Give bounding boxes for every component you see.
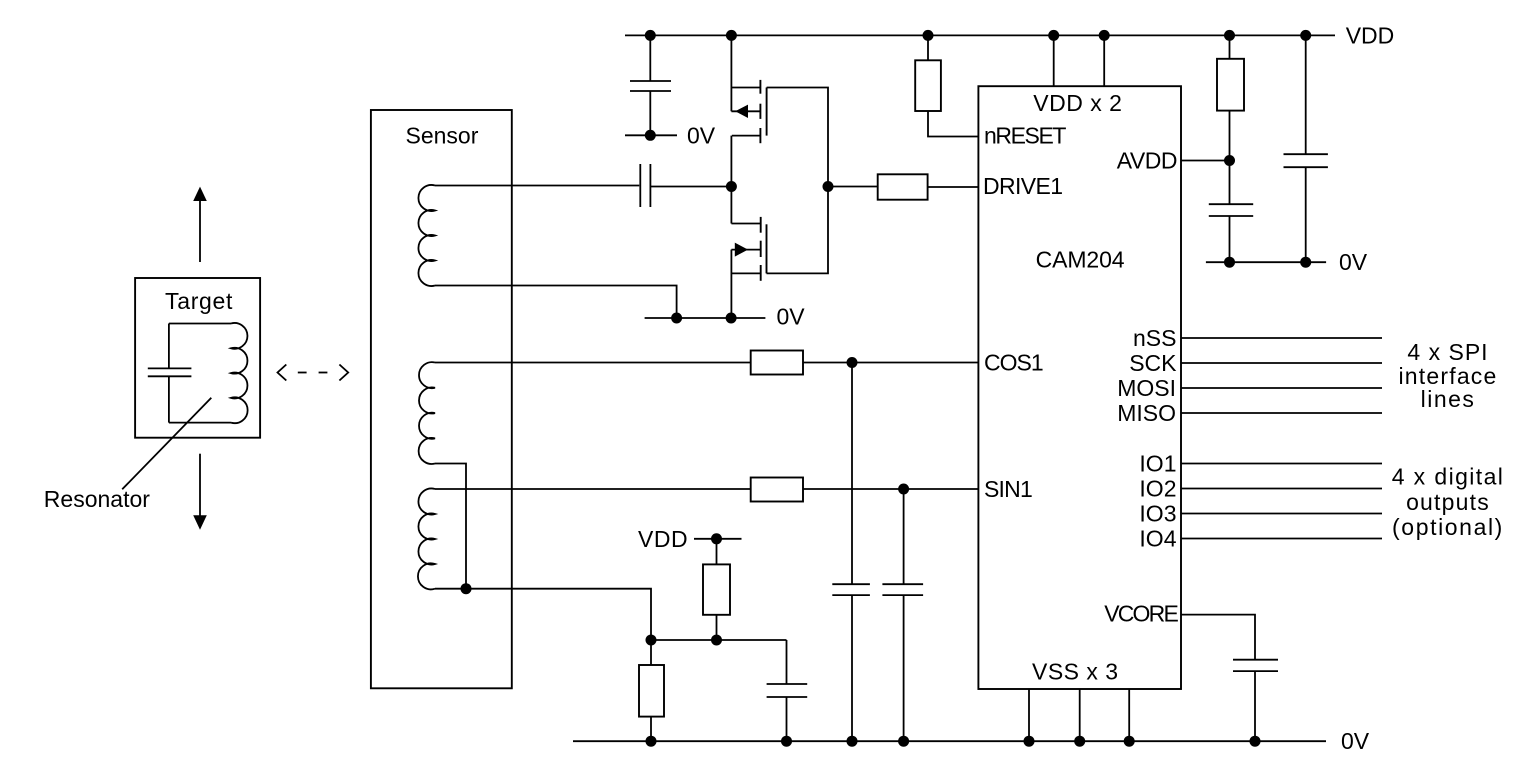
wire MISO pin	[1181, 412, 1382, 414]
svg-text:SIN1: SIN1	[984, 476, 1032, 502]
resistor R3 (COS1 series)	[435, 351, 978, 375]
wire VSS pin 2	[1079, 689, 1081, 741]
IC U1 CAM204	[978, 86, 1181, 689]
svg-text:(optional): (optional)	[1392, 514, 1504, 540]
wire gates node to R1	[828, 186, 878, 188]
svg-text:DRIVE1: DRIVE1	[983, 173, 1062, 199]
node Q1 source on VDD rail	[726, 30, 737, 41]
wire SCK pin	[1181, 362, 1382, 364]
resistor R2 (nRESET pull-up)	[915, 35, 978, 136]
wire VDD pin 2	[1103, 35, 1105, 86]
svg-text:4 x SPI: 4 x SPI	[1407, 339, 1488, 365]
svg-text:0V: 0V	[1339, 249, 1368, 275]
svg-text:VDD: VDD	[1346, 23, 1395, 49]
svg-text:VDD x 2: VDD x 2	[1033, 90, 1122, 116]
node rail C8	[1250, 736, 1261, 747]
svg-text:IO2: IO2	[1139, 476, 1176, 502]
node rail R6	[646, 736, 657, 747]
wire L1 bottom to 0V	[435, 286, 677, 319]
up arrow (target motion)	[193, 187, 207, 262]
down arrow (target motion)	[193, 454, 207, 530]
wire 0V stub below Q2	[645, 317, 766, 319]
svg-text:MISO: MISO	[1117, 400, 1176, 426]
svg-text:interface: interface	[1398, 363, 1497, 389]
node VDD pin 1	[1048, 30, 1059, 41]
svg-text:0V: 0V	[1341, 728, 1370, 754]
svg-text:COS1: COS1	[984, 349, 1043, 375]
wire VSS pin 3	[1128, 689, 1130, 741]
inductor L2 (sensor coil 2)	[419, 362, 435, 464]
label 4 x SPI interface lines	[1398, 339, 1497, 412]
node rail C5	[781, 736, 792, 747]
wire bias row	[651, 639, 787, 641]
capacitor C5 (bias)	[767, 640, 808, 741]
svg-text:0V: 0V	[777, 304, 806, 330]
svg-text:MOSI: MOSI	[1117, 375, 1176, 401]
capacitor C2 (DC block)	[640, 164, 731, 207]
resistor R4 (SIN1 series)	[435, 478, 978, 502]
capacitor C6 (AVDD)	[1209, 161, 1253, 263]
wire gate bus Q1/Q2	[767, 88, 829, 274]
wire VDD top rail	[625, 34, 1335, 36]
svg-text:outputs: outputs	[1406, 489, 1490, 515]
node R7 on VDD rail	[1224, 30, 1235, 41]
resistor R6 (bias lower)	[639, 640, 664, 741]
wire L1 top to C2	[435, 185, 639, 187]
capacitor (resonator C)	[148, 324, 192, 423]
svg-text:nRESET: nRESET	[984, 123, 1066, 149]
resistor R7 (AVDD)	[1217, 35, 1244, 160]
wire IO2 pin	[1181, 488, 1382, 490]
node C1 on VDD rail	[645, 30, 656, 41]
inductor (resonator L)	[231, 323, 248, 423]
svg-text:lines: lines	[1421, 386, 1476, 412]
transistor Q1 (P-channel MOSFET)	[731, 35, 766, 186]
wire R1 to DRIVE1 pin	[928, 186, 979, 188]
node bias left	[646, 635, 657, 646]
wire IO1 pin	[1181, 463, 1382, 465]
svg-text:VSS x 3: VSS x 3	[1032, 659, 1119, 685]
wire VCORE pin	[1181, 615, 1255, 660]
node VSS pin 3	[1124, 736, 1135, 747]
node C7 to 0V	[1300, 257, 1311, 268]
wire resonator loop bottom	[169, 422, 231, 424]
node C1 to 0V	[645, 130, 656, 141]
svg-text:IO3: IO3	[1139, 501, 1176, 527]
wire resonator loop top	[169, 323, 231, 325]
node bias center	[711, 635, 722, 646]
svg-text:4 x digital: 4 x digital	[1392, 464, 1505, 490]
wire VDD pin 1	[1053, 35, 1055, 86]
node L2/L3 junction	[461, 583, 472, 594]
wire IO3 pin	[1181, 513, 1382, 515]
node rail C3	[847, 736, 858, 747]
label 4 x digital outputs (optional)	[1392, 464, 1505, 541]
node VDD pin 2	[1099, 30, 1110, 41]
node rail C4	[898, 736, 909, 747]
node VDD bias	[711, 533, 722, 544]
node C6 to 0V	[1224, 257, 1235, 268]
resonator pointer line	[122, 398, 211, 490]
svg-text:Sensor: Sensor	[406, 122, 479, 148]
inductor L3 (sensor coil 3)	[418, 489, 435, 590]
capacitor C7 (VDD decoupling right)	[1284, 35, 1328, 262]
svg-text:IO1: IO1	[1139, 451, 1176, 477]
resistor R1 (DRIVE1 gate)	[878, 174, 928, 199]
node SIN1 filter	[898, 484, 909, 495]
wire 0V bottom rail	[573, 740, 1326, 742]
capacitor C8 (VCORE)	[1233, 660, 1278, 742]
wire VSS pin 1	[1028, 689, 1030, 741]
svg-text:VDD: VDD	[638, 526, 688, 552]
svg-text:VCORE: VCORE	[1104, 601, 1178, 627]
svg-text:IO4: IO4	[1139, 526, 1176, 552]
node Q2 source to 0V	[726, 313, 737, 324]
capacitor C3 (COS1 filter)	[832, 363, 870, 742]
node VSS pin 2	[1074, 736, 1085, 747]
wire VDD bias stub	[694, 538, 742, 540]
svg-text:0V: 0V	[687, 122, 716, 148]
wire IO4 pin	[1181, 538, 1382, 540]
svg-text:CAM204: CAM204	[1036, 247, 1125, 273]
node COS1 filter	[847, 357, 858, 368]
node coil1 return	[671, 313, 682, 324]
wire L2 bottom tail	[435, 464, 466, 589]
capacitor C1 (VDD decoupling top-left)	[630, 35, 671, 135]
node gates	[823, 181, 834, 192]
svg-text:Resonator: Resonator	[44, 486, 150, 512]
transistor Q2 (N-channel MOSFET)	[731, 187, 766, 319]
resistor R5 (bias upper)	[703, 539, 730, 640]
svg-text:AVDD: AVDD	[1117, 148, 1177, 174]
wire 0V stub right	[1206, 261, 1326, 263]
wire L3 bottom to bias node	[435, 589, 651, 640]
node drains	[726, 181, 737, 192]
node AVDD	[1224, 155, 1235, 166]
node R2 on VDD rail	[923, 30, 934, 41]
capacitor C4 (SIN1 filter)	[882, 489, 923, 741]
svg-text:nSS: nSS	[1133, 325, 1176, 351]
node VSS pin 1	[1024, 736, 1035, 747]
Target box	[135, 278, 260, 438]
wire AVDD pin	[1181, 160, 1230, 162]
svg-text:SCK: SCK	[1129, 350, 1177, 376]
dashed double arrow (coupling)	[278, 365, 349, 381]
inductor L1 (sensor coil 1)	[418, 185, 435, 286]
wire nSS pin	[1181, 337, 1382, 339]
wire MOSI pin	[1181, 387, 1382, 389]
wire 0V stub top-left	[625, 134, 677, 136]
node C7 on VDD rail	[1300, 30, 1311, 41]
svg-text:Target: Target	[165, 288, 233, 314]
Sensor box	[371, 110, 512, 688]
